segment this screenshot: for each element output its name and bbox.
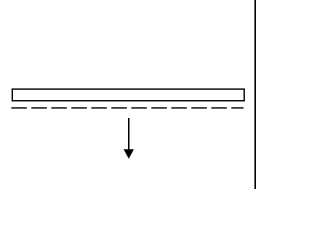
beam rectangle [12,89,244,101]
arrowhead [124,149,134,159]
arrow shaft [128,118,130,151]
right border line [254,0,256,189]
dashed line [11,107,243,109]
